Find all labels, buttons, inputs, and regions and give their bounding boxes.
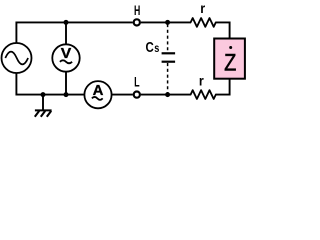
svg-text:C: C <box>146 40 155 56</box>
svg-text:Z: Z <box>224 50 236 77</box>
svg-text:r: r <box>199 73 204 89</box>
wire : left vertical from source to bottom rail <box>15 73 17 96</box>
junction dot bottom capacitor tap <box>165 92 170 97</box>
capacitor Cs (stray, dashed leads) <box>162 24 176 93</box>
impedance Z box <box>214 39 245 79</box>
wire : bottom rail left segment <box>16 94 85 96</box>
wire : voltmeter branch lower lead <box>65 72 67 95</box>
ammeter A1 <box>84 81 111 108</box>
junction dot bottom voltmeter tap <box>64 92 69 97</box>
resistor r1 (top) <box>191 18 216 27</box>
junction dot top voltmeter tap <box>64 20 69 25</box>
wire : bottom rail between ammeter and L terminal <box>111 94 132 96</box>
junction dot ground tap <box>41 92 46 97</box>
resistor r2 (bottom) <box>191 90 216 99</box>
svg-text:s: s <box>154 41 159 55</box>
wire : voltmeter branch upper lead <box>65 22 67 44</box>
wire : top rail left segment <box>16 21 132 23</box>
svg-text:H: H <box>134 3 140 18</box>
node H terminal <box>134 19 140 25</box>
wire : top right corner into Z box <box>216 22 230 38</box>
junction dot top capacitor tap <box>165 20 170 25</box>
wire : bottom right corner into Z box <box>216 79 230 94</box>
impedance Z dot (complex quantity dot) <box>229 46 232 49</box>
ac source E <box>2 43 32 73</box>
svg-text:r: r <box>200 0 205 16</box>
wire : left vertical from top rail to source <box>15 22 17 44</box>
node L terminal <box>134 92 140 98</box>
ground <box>35 95 52 117</box>
svg-text:L: L <box>134 74 140 89</box>
wire : bottom rail between L terminal and resistor r2 <box>141 94 191 96</box>
voltmeter V1 <box>52 44 79 71</box>
wire : top rail between H terminal and resistor r1 <box>141 21 191 23</box>
